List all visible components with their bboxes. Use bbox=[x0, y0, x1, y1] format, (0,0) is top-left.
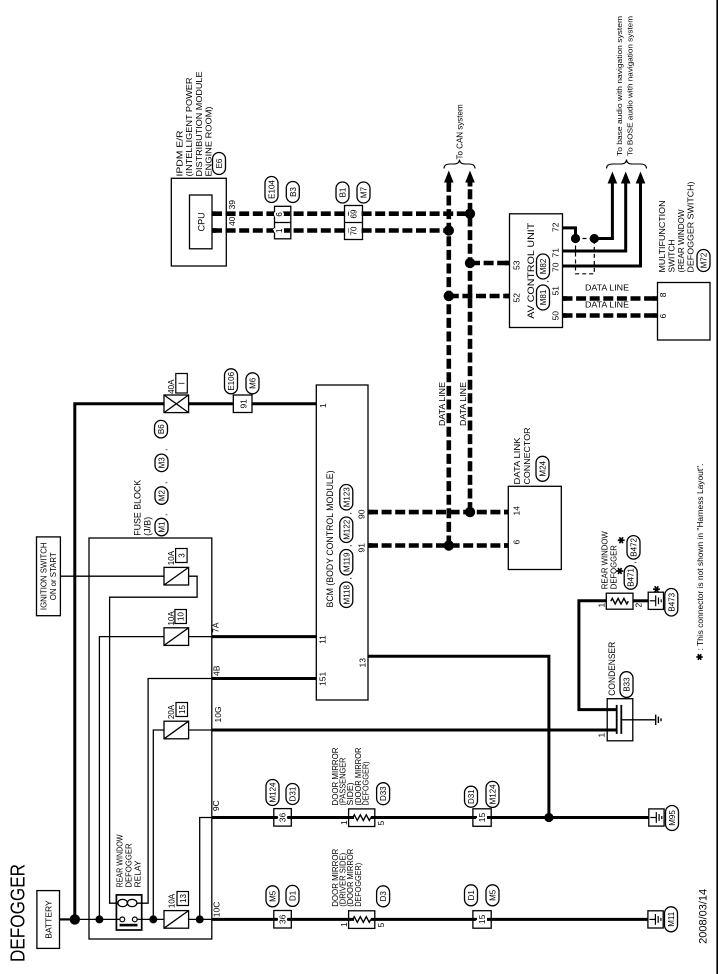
connector M122 bbox=[340, 517, 353, 543]
relay contact blade bbox=[120, 924, 138, 927]
wire passenger mirror to ground bbox=[371, 816, 649, 819]
connector M5 b bbox=[486, 885, 499, 906]
wire battery branch to fuse 10 bbox=[99, 637, 164, 920]
svg-text:,: , bbox=[159, 514, 169, 516]
svg-text:To BOSE audio with navigation: To BOSE audio with navigation system bbox=[626, 16, 635, 156]
wire relay coil to 4B bbox=[137, 679, 212, 904]
svg-text:: This connector is not shown: : This connector is not shown in "Harnes… bbox=[696, 464, 705, 651]
svg-text:M123: M123 bbox=[342, 487, 351, 508]
svg-text:M118: M118 bbox=[342, 584, 351, 604]
svg-text:M7: M7 bbox=[360, 186, 369, 198]
svg-text:M3: M3 bbox=[158, 457, 167, 469]
svg-text:2008/03/14: 2008/03/14 bbox=[698, 889, 710, 944]
svg-text:13: 13 bbox=[179, 894, 188, 903]
svg-text:8: 8 bbox=[658, 292, 668, 297]
brace to CAN system bbox=[444, 160, 475, 169]
wire fuse13 to 10C bbox=[189, 918, 212, 920]
connector 15 passenger bbox=[473, 809, 491, 827]
ground M95 bbox=[649, 809, 664, 826]
connector D33 bbox=[377, 783, 390, 805]
wire defogger to ground B473 bbox=[633, 599, 648, 602]
connector M1 bbox=[155, 518, 168, 536]
wire BCM90 to DLC14 bbox=[368, 510, 508, 515]
wire 91 to BCM pin 1 bbox=[252, 402, 316, 405]
wire 9C branch bbox=[200, 818, 212, 920]
wire battery line into fuse block bbox=[75, 918, 120, 920]
note star harness layout bbox=[696, 656, 702, 658]
svg-text:M95: M95 bbox=[668, 810, 677, 826]
svg-text:1: 1 bbox=[597, 733, 607, 738]
condenser box bbox=[607, 699, 633, 741]
svg-text:IGNITION SWITCH: IGNITION SWITCH bbox=[39, 543, 48, 611]
svg-text:M1: M1 bbox=[158, 521, 167, 533]
svg-text:M72: M72 bbox=[700, 252, 709, 268]
svg-text:(REAR WINDOW: (REAR WINDOW bbox=[676, 210, 686, 273]
BCM box bbox=[316, 385, 368, 700]
svg-text:E6: E6 bbox=[215, 158, 224, 168]
wire CAN-H data line bbox=[446, 183, 451, 546]
wire 20A branch bbox=[153, 730, 164, 919]
svg-text:53: 53 bbox=[511, 260, 521, 270]
rear window defogger element bbox=[606, 593, 633, 609]
svg-text:,: , bbox=[343, 512, 353, 514]
svg-text:10G: 10G bbox=[213, 706, 223, 722]
svg-text:RELAY: RELAY bbox=[134, 860, 143, 888]
svg-text:1: 1 bbox=[339, 820, 349, 825]
svg-text:15: 15 bbox=[477, 914, 487, 924]
svg-text:D1: D1 bbox=[289, 890, 298, 901]
arrow to BOSE audio bbox=[621, 172, 631, 184]
svg-text:,: , bbox=[540, 280, 550, 282]
svg-text:D1: D1 bbox=[467, 890, 476, 901]
connector M95 bbox=[666, 806, 679, 831]
connector M81 bbox=[537, 285, 550, 310]
connector B473 bbox=[665, 589, 678, 617]
node CAN-H BCM91 bbox=[444, 540, 454, 550]
svg-text:70: 70 bbox=[350, 226, 359, 235]
wire BCM13 bbox=[368, 656, 549, 817]
connector M24 bbox=[536, 456, 549, 481]
arrow CAN-L to CAN system bbox=[465, 171, 475, 183]
connector M124 a bbox=[266, 780, 279, 806]
svg-text:90: 90 bbox=[357, 509, 367, 519]
wire AV70 to audio arrow bbox=[563, 183, 641, 266]
svg-text:DISTRIBUTION MODULE: DISTRIBUTION MODULE bbox=[195, 72, 204, 177]
svg-text:M6: M6 bbox=[249, 377, 258, 389]
wire AV pin52 stub bbox=[449, 294, 510, 299]
svg-text:B1: B1 bbox=[339, 187, 348, 197]
svg-text:20A: 20A bbox=[167, 704, 176, 719]
wire ignition to fuse 3 bbox=[60, 575, 164, 577]
svg-text:DATA LINE: DATA LINE bbox=[458, 382, 468, 426]
wire CAN 39 from CPU bbox=[212, 211, 470, 216]
wire BCM91 to DLC6 bbox=[368, 543, 508, 548]
svg-text:To CAN system: To CAN system bbox=[456, 104, 465, 159]
connector M124 b bbox=[486, 781, 499, 807]
wire fuse 10 to 7A BCM pin 11 bbox=[189, 636, 212, 638]
multifunction switch box bbox=[658, 283, 711, 341]
svg-text:M82: M82 bbox=[539, 258, 548, 274]
node CAN-L wire39 bbox=[465, 209, 475, 219]
svg-text:M5: M5 bbox=[489, 889, 498, 901]
ignition switch bbox=[37, 537, 61, 616]
svg-text:M119: M119 bbox=[342, 552, 351, 572]
svg-text:CONNECTOR: CONNECTOR bbox=[522, 428, 532, 485]
connector D31 a bbox=[286, 784, 299, 805]
connector box B1/M7 pins 70 69 bbox=[345, 206, 363, 240]
wire condenser to defogger bbox=[579, 601, 617, 710]
svg-text:DATA LINE: DATA LINE bbox=[585, 283, 629, 293]
svg-text:1: 1 bbox=[275, 228, 284, 233]
svg-text:DEFOGGER: DEFOGGER bbox=[7, 864, 30, 962]
connector box E104/B3 pins 1 6 bbox=[275, 206, 291, 239]
svg-text:,: , bbox=[628, 561, 638, 563]
wire AV71 to audio arrow bbox=[563, 183, 626, 251]
svg-text:REAR WINDOW: REAR WINDOW bbox=[116, 834, 125, 887]
connector M3 bbox=[155, 454, 168, 472]
fuse block J/B box bbox=[89, 538, 212, 939]
fuse 10A 10 bbox=[164, 628, 189, 646]
svg-text:FUSE BLOCK: FUSE BLOCK bbox=[133, 480, 143, 536]
svg-text:6: 6 bbox=[658, 314, 668, 319]
svg-text:(J/B): (J/B) bbox=[143, 517, 153, 536]
connector M118 bbox=[340, 582, 353, 608]
svg-text:50: 50 bbox=[551, 311, 561, 321]
svg-text:BCM (BODY CONTROL MODULE): BCM (BODY CONTROL MODULE) bbox=[325, 471, 335, 608]
connector B472 bbox=[627, 536, 640, 560]
svg-text:DEFOGGER): DEFOGGER) bbox=[354, 863, 363, 907]
svg-text:1: 1 bbox=[339, 922, 349, 927]
wire battery to junction bbox=[60, 918, 75, 920]
connector M5 a bbox=[266, 886, 279, 907]
condenser plate 2 bbox=[620, 705, 622, 734]
svg-text:M122: M122 bbox=[342, 519, 351, 540]
node CAN-H wire40 bbox=[444, 225, 454, 235]
data link connector box bbox=[508, 486, 561, 569]
arrow CAN-H to CAN system bbox=[444, 171, 454, 183]
relay coil bbox=[118, 899, 128, 906]
svg-text:,: , bbox=[343, 577, 353, 579]
arrow to BOSE audio 2 bbox=[636, 172, 646, 184]
AV control unit box bbox=[510, 214, 563, 328]
wire fuse 3 to relay coil bbox=[110, 576, 198, 903]
svg-text:M124: M124 bbox=[269, 782, 278, 803]
svg-text:M5: M5 bbox=[269, 890, 278, 902]
svg-text:91: 91 bbox=[239, 399, 249, 409]
svg-text:DEFOGGER: DEFOGGER bbox=[125, 843, 134, 887]
connector D1 a bbox=[286, 885, 299, 906]
connector M11 bbox=[665, 907, 678, 932]
svg-text:I: I bbox=[178, 382, 187, 384]
svg-text:15: 15 bbox=[477, 813, 487, 823]
svg-text:36: 36 bbox=[278, 813, 288, 823]
wire condenser to ground bbox=[621, 719, 655, 721]
wire data line AV51 MFS8 bbox=[563, 296, 658, 301]
node 20A branch bbox=[149, 915, 157, 923]
wire data line AV50 MFS6 bbox=[563, 313, 658, 318]
svg-text:AV CONTROL UNIT: AV CONTROL UNIT bbox=[526, 222, 537, 318]
connector M6 bbox=[246, 373, 259, 394]
fuse 10A 3 bbox=[164, 567, 189, 585]
rear window defogger relay box bbox=[116, 895, 141, 930]
svg-text:151: 151 bbox=[318, 672, 328, 686]
connector 15 driver bbox=[473, 911, 491, 929]
connector M7 bbox=[357, 182, 370, 203]
svg-text:3: 3 bbox=[177, 553, 186, 558]
node CAN-L AV53 stub bbox=[465, 258, 475, 268]
connector D31 b bbox=[465, 786, 478, 807]
wire AV pin53 stub bbox=[470, 261, 510, 266]
svg-text:B471: B471 bbox=[627, 568, 636, 587]
svg-text:SWITCH: SWITCH bbox=[667, 240, 677, 273]
svg-text:,: , bbox=[343, 545, 353, 547]
connector D3 bbox=[377, 886, 390, 907]
door mirror driver box bbox=[349, 911, 375, 929]
connector M82 bbox=[537, 254, 550, 279]
fusible link 40A I bbox=[164, 395, 189, 413]
fuse 10A 13 bbox=[164, 911, 189, 929]
star B471 bbox=[616, 570, 623, 572]
relay contact terminal 2 bbox=[132, 917, 137, 922]
svg-text:M124: M124 bbox=[489, 784, 498, 805]
svg-text:(INTELLIGENT POWER: (INTELLIGENT POWER bbox=[185, 77, 194, 176]
svg-text:BATTERY: BATTERY bbox=[44, 900, 54, 939]
svg-text:,: , bbox=[159, 449, 169, 451]
star B472 bbox=[618, 539, 625, 541]
bottom border line bbox=[716, 0, 718, 974]
node B bbox=[590, 234, 599, 243]
connector B471 bbox=[624, 566, 637, 590]
wire 9C to passenger mirror bbox=[212, 816, 354, 819]
connector B33 bbox=[620, 672, 633, 698]
svg-text:MULTIFUNCTION: MULTIFUNCTION bbox=[657, 201, 667, 273]
svg-text:10A: 10A bbox=[168, 893, 177, 908]
fuse 20A 15 bbox=[164, 721, 189, 739]
connector M2 bbox=[155, 487, 168, 505]
relay contact terminal 1 bbox=[120, 917, 125, 922]
connector E6 bbox=[213, 153, 226, 175]
svg-text:D33: D33 bbox=[379, 786, 388, 801]
node 9C branch bbox=[196, 915, 204, 923]
svg-text:E104: E104 bbox=[268, 180, 277, 199]
wire 4B to BCM pin 151 bbox=[212, 677, 316, 680]
svg-text:E106: E106 bbox=[227, 371, 236, 390]
node fuse10 branch bbox=[95, 915, 103, 923]
brace to audio systems bbox=[607, 160, 647, 169]
IPDM E/R box bbox=[171, 178, 226, 266]
node BCM13 psgr mirror bbox=[544, 813, 553, 822]
connector B6 bbox=[155, 420, 168, 438]
svg-text:B6: B6 bbox=[157, 424, 166, 434]
svg-text:11: 11 bbox=[318, 635, 328, 644]
svg-text:CPU: CPU bbox=[197, 212, 207, 231]
svg-text:13: 13 bbox=[358, 658, 368, 668]
connector E106 bbox=[225, 369, 238, 394]
svg-text:1: 1 bbox=[318, 403, 328, 408]
connector E104 bbox=[265, 177, 278, 203]
svg-text:6: 6 bbox=[275, 212, 284, 217]
svg-text:9C: 9C bbox=[211, 800, 221, 811]
svg-text:5: 5 bbox=[376, 923, 386, 928]
wire dot B to base audio arrow bbox=[594, 183, 612, 239]
wire battery line relay to 20A branch bbox=[137, 918, 164, 920]
svg-text:14: 14 bbox=[511, 506, 521, 516]
node A bbox=[571, 234, 580, 243]
svg-text:DATA LINK: DATA LINK bbox=[512, 437, 522, 484]
svg-text:4B: 4B bbox=[212, 665, 222, 676]
ground condenser bbox=[655, 715, 657, 725]
svg-text:IPDM E/R: IPDM E/R bbox=[176, 130, 185, 176]
svg-text:M24: M24 bbox=[539, 460, 548, 476]
condenser plate 1 bbox=[616, 705, 618, 734]
svg-text:CONDENSER: CONDENSER bbox=[607, 641, 617, 695]
svg-text:2: 2 bbox=[634, 603, 644, 608]
svg-text:B3: B3 bbox=[289, 187, 298, 197]
svg-text:DEFOGGER SWITCH): DEFOGGER SWITCH) bbox=[686, 181, 696, 272]
svg-text:72: 72 bbox=[551, 222, 561, 232]
dashed connector box A-B bbox=[576, 239, 595, 274]
svg-text:DEFOGGER: DEFOGGER bbox=[610, 545, 619, 589]
connector B3 bbox=[286, 182, 299, 203]
connector 36 driver bbox=[274, 911, 292, 929]
svg-text:B473: B473 bbox=[667, 592, 676, 611]
svg-text:,: , bbox=[159, 482, 169, 484]
connector D1 b bbox=[465, 885, 478, 906]
battery B bbox=[37, 891, 60, 949]
door mirror passenger box bbox=[349, 809, 375, 827]
svg-text:6: 6 bbox=[511, 540, 521, 545]
svg-text:D31: D31 bbox=[289, 786, 298, 801]
svg-text:51: 51 bbox=[551, 286, 561, 296]
ground M11 bbox=[648, 911, 663, 928]
arrow to base audio bbox=[608, 172, 618, 184]
svg-text:10: 10 bbox=[177, 612, 186, 621]
svg-text:40A: 40A bbox=[167, 379, 176, 394]
svg-text:M2: M2 bbox=[158, 489, 167, 501]
svg-text:10A: 10A bbox=[167, 550, 176, 565]
connector 36 passenger bbox=[274, 809, 292, 827]
svg-text:B472: B472 bbox=[630, 537, 639, 556]
svg-text:10C: 10C bbox=[212, 902, 222, 918]
svg-text:71: 71 bbox=[551, 248, 561, 258]
svg-text:DATA LINE: DATA LINE bbox=[585, 300, 629, 310]
connector B1 bbox=[336, 182, 349, 203]
svg-text:36: 36 bbox=[278, 914, 288, 924]
svg-text:1: 1 bbox=[597, 603, 607, 608]
svg-text:52: 52 bbox=[511, 293, 521, 303]
node CAN-L BCM90 bbox=[465, 507, 475, 517]
svg-text:M81: M81 bbox=[539, 289, 548, 305]
svg-text:39: 39 bbox=[227, 200, 237, 210]
svg-text:REAR WINDOW: REAR WINDOW bbox=[601, 531, 610, 589]
svg-text:15: 15 bbox=[178, 705, 187, 714]
node CAN-H AV52 stub bbox=[444, 291, 454, 301]
star B473 bbox=[653, 588, 660, 590]
svg-text:91: 91 bbox=[357, 543, 367, 553]
svg-text:5: 5 bbox=[376, 821, 386, 826]
svg-text:40: 40 bbox=[227, 216, 237, 226]
svg-text:DATA LINE: DATA LINE bbox=[437, 382, 447, 426]
svg-text:D3: D3 bbox=[379, 891, 388, 902]
svg-text:D31: D31 bbox=[467, 789, 476, 804]
wire main battery feed to 40A bbox=[75, 404, 164, 920]
wire driver mirror to ground bbox=[371, 918, 648, 921]
svg-text:7A: 7A bbox=[211, 622, 221, 633]
svg-text:To base audio with navigation: To base audio with navigation system bbox=[615, 16, 624, 156]
connector M123 bbox=[340, 485, 353, 511]
connector 91 box bbox=[233, 395, 252, 413]
CPU box bbox=[190, 195, 213, 249]
svg-text:69: 69 bbox=[350, 209, 359, 218]
svg-text:M11: M11 bbox=[667, 911, 676, 927]
wire 40A to connector 91 bbox=[189, 402, 234, 405]
ground B473 bbox=[648, 592, 663, 609]
wire CAN-L data line bbox=[468, 183, 473, 513]
connector M119 bbox=[340, 550, 353, 576]
svg-text:ON or START: ON or START bbox=[49, 552, 58, 600]
wire AV72 to dot A bbox=[563, 228, 576, 239]
wire 10C to driver mirror bbox=[212, 918, 354, 921]
node battery junction bbox=[70, 914, 80, 924]
svg-text:B33: B33 bbox=[623, 677, 632, 692]
svg-text:70: 70 bbox=[551, 262, 561, 272]
svg-text:DEFOGGER): DEFOGGER) bbox=[361, 761, 370, 805]
wire 10G bbox=[189, 729, 212, 731]
connector M72 bbox=[697, 250, 710, 272]
wire CAN 40 from CPU bbox=[212, 228, 449, 233]
